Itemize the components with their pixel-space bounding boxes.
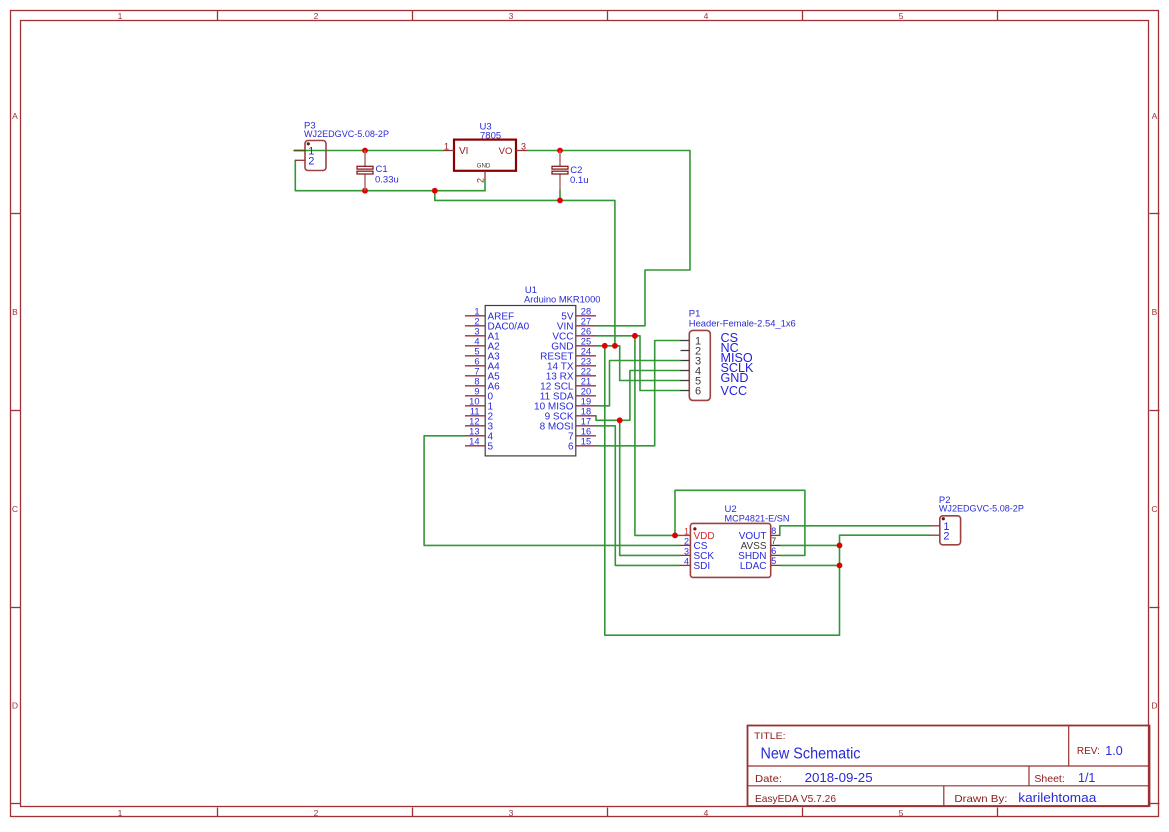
- U1 pin 27 VIN: [576, 325, 596, 327]
- wire net GND: U2 LDAC to rail: [780, 564, 840, 566]
- svg-text:14: 14: [469, 437, 479, 447]
- svg-text:5: 5: [488, 441, 494, 452]
- svg-text:1: 1: [474, 307, 479, 317]
- connector P1 Header-Female-2.54_1x6: [681, 309, 796, 401]
- U2 pin 5 LDAC: [771, 564, 780, 566]
- U1 pin 18 9 SCK: [576, 415, 596, 417]
- svg-text:3: 3: [684, 546, 689, 556]
- svg-text:C1: C1: [376, 164, 388, 175]
- P1 pin 2 NC: [681, 350, 690, 352]
- svg-text:0.1u: 0.1u: [570, 175, 589, 186]
- capacitor C1 0.33u: [357, 151, 399, 191]
- svg-text:21: 21: [581, 377, 591, 387]
- junction C2 top / net VIN: [557, 148, 563, 154]
- U2 pin 7 AVSS: [771, 544, 780, 546]
- svg-text:3: 3: [521, 141, 526, 151]
- U1 pin 13 4: [465, 435, 485, 437]
- U1 pin 20 11 SDA: [576, 395, 596, 397]
- svg-text:12: 12: [469, 417, 479, 427]
- P1 pin 4 SCLK: [681, 370, 690, 372]
- P1 pin 6 VCC: [681, 390, 690, 392]
- junction SCLK branch: [617, 417, 623, 423]
- wire net CS: U1 pin15 to P1 pin1: [596, 341, 681, 446]
- svg-text:EasyEDA V5.7.26: EasyEDA V5.7.26: [755, 793, 836, 805]
- P1 pin 3 MISO: [681, 360, 690, 362]
- wire net GND: C2 bottom stub: [559, 190, 561, 200]
- U1 pin 19 10 MISO: [576, 405, 596, 407]
- svg-text:Date:: Date:: [755, 773, 782, 785]
- junction GND from power rail: [612, 343, 618, 349]
- U1 pin 21 12 SCL: [576, 385, 596, 387]
- junction AVSS / GND rail: [837, 543, 843, 549]
- svg-text:17: 17: [581, 417, 591, 427]
- svg-text:19: 19: [581, 397, 591, 407]
- wire net VCC: U2 VDD loop to SHDN: [675, 490, 805, 555]
- U1 pin 14 5: [465, 445, 485, 447]
- U1 pin 3 A1: [465, 335, 485, 337]
- svg-text:SDI: SDI: [694, 561, 711, 572]
- U3 pin 3 VO: [516, 150, 527, 152]
- wire net GND: P3 pin2 rail to U3 pin2: [295, 160, 485, 190]
- svg-text:1: 1: [444, 141, 449, 151]
- svg-text:7: 7: [771, 536, 776, 546]
- wire net GND: U1 GND to bottom rail to P2 pin2: [605, 346, 931, 635]
- wire net VOUT: U2 VOUT to P2 pin1: [780, 526, 931, 536]
- U1 pin 15 6: [576, 445, 596, 447]
- U1 pin 28 5V: [576, 315, 596, 317]
- connector P3 WJ2EDGVC-5.08-2P: [294, 121, 389, 171]
- svg-text:New Schematic: New Schematic: [761, 746, 861, 763]
- svg-text:22: 22: [581, 367, 591, 377]
- svg-text:5: 5: [899, 11, 904, 21]
- svg-text:8: 8: [771, 526, 776, 536]
- junction C1 bottom / net GND: [362, 188, 368, 194]
- svg-text:A: A: [1152, 111, 1158, 121]
- U2 pin 2 CS: [680, 544, 691, 546]
- svg-text:2: 2: [314, 808, 319, 818]
- wire net MISO: U1 pin19 to P1 pin3: [596, 361, 681, 406]
- junction LDAC / GND rail: [837, 563, 843, 569]
- U2 pin 6 SHDN: [771, 554, 780, 556]
- wire net VCC: U1 VCC to P1 pin6: [596, 336, 681, 391]
- svg-text:REV:: REV:: [1077, 746, 1100, 757]
- svg-text:6: 6: [771, 546, 776, 556]
- svg-text:2: 2: [474, 317, 479, 327]
- U1 pin 16 7: [576, 435, 596, 437]
- svg-text:2: 2: [943, 531, 949, 543]
- svg-text:3: 3: [474, 327, 479, 337]
- ic U2 MCP4821-E/SN: [680, 504, 790, 577]
- U1 pin 25 GND: [576, 345, 596, 347]
- wire net VIN: U3 VO to U1 VIN: [527, 151, 690, 326]
- svg-text:karilehtomaa: karilehtomaa: [1018, 791, 1096, 805]
- U1 pin 7 A5: [465, 375, 485, 377]
- U3 pin 2 GND: [484, 171, 486, 180]
- svg-text:GND: GND: [477, 163, 491, 170]
- svg-text:Arduino MKR1000: Arduino MKR1000: [524, 295, 601, 306]
- svg-text:10: 10: [469, 397, 479, 407]
- U1 pin 17 8 MOSI: [576, 425, 596, 427]
- P2 pin 1: [930, 525, 939, 527]
- connector P2 WJ2EDGVC-5.08-2P: [930, 495, 1024, 545]
- P1 pin 5 GND: [681, 380, 690, 382]
- svg-text:25: 25: [581, 337, 591, 347]
- svg-text:6: 6: [695, 385, 701, 397]
- U1 pin 6 A4: [465, 365, 485, 367]
- svg-text:LDAC: LDAC: [740, 561, 767, 572]
- U1 pin 4 A2: [465, 345, 485, 347]
- svg-text:4: 4: [474, 337, 479, 347]
- svg-text:D: D: [12, 700, 18, 710]
- wire net CS2: U1 pin13 to U2 CS: [424, 436, 679, 546]
- U2 pin 3 SCK: [680, 554, 691, 556]
- svg-text:B: B: [1152, 307, 1158, 317]
- svg-text:2: 2: [476, 178, 486, 183]
- svg-text:0.33u: 0.33u: [375, 175, 399, 186]
- U1 pin 24 RESET: [576, 355, 596, 357]
- junction C1 top / net IN: [362, 148, 368, 154]
- U3 pin 1 VI: [443, 150, 454, 152]
- junction U2 VDD / SHDN loop: [672, 533, 678, 539]
- svg-text:D: D: [1151, 700, 1157, 710]
- svg-text:5: 5: [899, 808, 904, 818]
- U1 pin 11 2: [465, 415, 485, 417]
- svg-text:18: 18: [581, 407, 591, 417]
- U2 pin 4 SDI: [680, 564, 691, 566]
- P2 pin 2: [930, 534, 939, 536]
- svg-text:Header-Female-2.54_1x6: Header-Female-2.54_1x6: [689, 318, 796, 329]
- U1 pin 22 13 RX: [576, 375, 596, 377]
- U2 pin 8 VOUT: [771, 534, 780, 536]
- wire net GND: U2 AVSS to rail: [780, 544, 840, 546]
- svg-text:B: B: [12, 307, 18, 317]
- svg-text:11: 11: [470, 407, 480, 417]
- svg-text:1: 1: [118, 808, 123, 818]
- wire net SCLK: U1 pin18 to P1 pin4: [596, 371, 681, 421]
- svg-text:1: 1: [684, 526, 689, 536]
- svg-text:24: 24: [581, 347, 591, 357]
- svg-text:16: 16: [581, 427, 591, 437]
- wire net MOSI: U1 pin17 to U2 SDI: [596, 426, 680, 566]
- P1 pin 1 CS: [681, 340, 690, 342]
- U1 pin 12 3: [465, 425, 485, 427]
- svg-text:C2: C2: [570, 165, 582, 176]
- svg-text:2: 2: [308, 155, 314, 167]
- U1 pin 2 DAC0/A0: [465, 325, 485, 327]
- U1 pin 26 VCC: [576, 335, 596, 337]
- svg-text:Sheet:: Sheet:: [1034, 773, 1064, 785]
- svg-text:C: C: [12, 504, 18, 514]
- U2 pin 1 VDD: [680, 534, 691, 536]
- svg-text:1.0: 1.0: [1105, 744, 1122, 758]
- junction VCC branch: [632, 333, 638, 339]
- svg-text:5: 5: [771, 556, 776, 566]
- svg-text:23: 23: [581, 357, 591, 367]
- wire net SCLK: branch to U2 SCK: [620, 420, 680, 555]
- svg-text:5: 5: [474, 347, 479, 357]
- svg-text:WJ2EDGVC-5.08-2P: WJ2EDGVC-5.08-2P: [304, 129, 389, 140]
- svg-text:26: 26: [581, 327, 591, 337]
- U1 pin 8 A6: [465, 385, 485, 387]
- svg-text:VO: VO: [499, 146, 513, 157]
- svg-text:2018-09-25: 2018-09-25: [805, 770, 873, 785]
- U1 pin 23 14 TX: [576, 365, 596, 367]
- svg-text:WJ2EDGVC-5.08-2P: WJ2EDGVC-5.08-2P: [939, 504, 1024, 515]
- svg-text:27: 27: [581, 317, 591, 327]
- svg-text:4: 4: [704, 11, 709, 21]
- U1 pin 10 1: [465, 405, 485, 407]
- wire net IN: P3 pin1 to U3 VI: [294, 150, 443, 152]
- wire net VCC: branch to U2 VDD: [635, 336, 680, 536]
- svg-text:TITLE:: TITLE:: [754, 731, 786, 742]
- junction GND branch: [432, 188, 438, 194]
- wire net GND: U1 GND to P1 pin5: [596, 346, 681, 381]
- U1 pin 1 AREF: [465, 315, 485, 317]
- svg-text:6: 6: [474, 357, 479, 367]
- svg-text:2: 2: [314, 11, 319, 21]
- regulator U3 7805: [443, 122, 527, 184]
- svg-text:GND: GND: [721, 371, 749, 385]
- svg-text:3: 3: [509, 11, 514, 21]
- svg-text:1/1: 1/1: [1078, 771, 1095, 785]
- svg-text:4: 4: [684, 556, 689, 566]
- svg-text:VI: VI: [459, 146, 468, 157]
- svg-text:Drawn By:: Drawn By:: [954, 793, 1007, 805]
- svg-text:9: 9: [474, 387, 479, 397]
- svg-text:4: 4: [704, 808, 709, 818]
- U1 pin 5 A3: [465, 355, 485, 357]
- svg-text:A: A: [12, 111, 18, 121]
- svg-text:2: 2: [684, 536, 689, 546]
- wire net GND: branch to C2 and U1 GND pin: [435, 191, 615, 346]
- ic U1 Arduino MKR1000: [465, 285, 601, 456]
- svg-text:8: 8: [474, 377, 479, 387]
- svg-text:6: 6: [568, 441, 574, 452]
- svg-text:3: 3: [509, 808, 514, 818]
- svg-text:C: C: [1151, 504, 1157, 514]
- svg-text:13: 13: [469, 427, 479, 437]
- capacitor C2 0.1u: [552, 151, 589, 191]
- svg-text:28: 28: [581, 307, 591, 317]
- wire net GND: U3 pin2 stub: [484, 180, 486, 191]
- svg-text:1: 1: [118, 11, 123, 21]
- junction GND down branch: [602, 343, 608, 349]
- U1 pin 9 0: [465, 395, 485, 397]
- svg-text:20: 20: [581, 387, 591, 397]
- svg-text:15: 15: [581, 437, 591, 447]
- svg-text:VCC: VCC: [721, 384, 748, 398]
- junction C2 bottom / net GND: [557, 198, 563, 204]
- svg-text:7: 7: [474, 367, 479, 377]
